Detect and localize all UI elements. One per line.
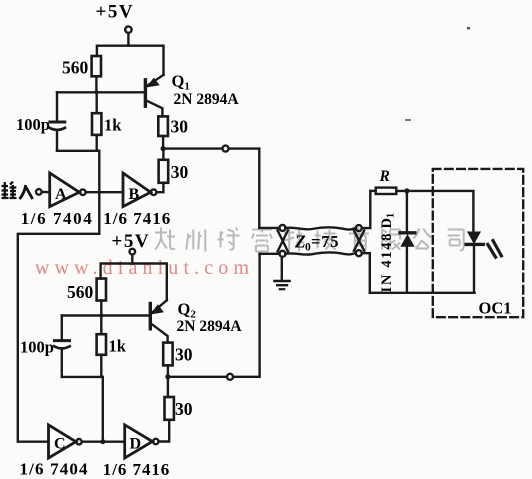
node D1 tap [404,188,409,193]
node input terminal [36,189,42,195]
resistor R [376,188,397,194]
coax cable top line [285,227,356,229]
30/noise specks [467,27,470,29]
wire input to A [42,191,50,194]
wire drop to D input row [102,377,104,442]
wire C out to D in [82,441,125,443]
node C-D row junction [100,439,105,444]
svg-text:1/6 7416: 1/6 7416 [103,460,170,479]
svg-text:C: C [54,436,66,453]
node output junction ch2 [165,374,170,379]
wire 30 to D output [159,420,170,442]
svg-text:30: 30 [171,117,189,137]
diode D1 [406,191,408,231]
coax twist left [278,230,288,251]
resistor 1k ch2 [97,334,106,355]
wire 560 to base row ch2 [100,301,102,316]
svg-text:30: 30 [171,162,189,182]
wire +5V stem ch2 [131,255,133,264]
resistor 560 ch1 [92,56,101,76]
wire to output node ch2 [167,365,169,376]
wire bottom row ch2 [62,376,103,378]
wire top rail ch1 [97,46,164,75]
inverter A ch1 [50,173,80,207]
svg-text:A: A [55,186,67,203]
wire base row ch1 [57,91,145,93]
capacitor 100p ch2 [61,316,63,340]
resistor 1k ch1 [92,113,101,135]
wire feedback drop ch1 to C input [18,151,100,442]
transistor Q2 [149,304,152,329]
svg-text:1k: 1k [104,116,122,135]
wire 30 to B output [156,149,163,193]
wire 560 to base row ch1 [95,76,97,92]
svg-text:2N 2894A: 2N 2894A [177,318,243,335]
optocoupler dashed box OC1 [433,169,523,317]
node output junction ch1 [161,146,166,151]
LED in optocoupler [468,232,480,243]
svg-text:1/6 7404: 1/6 7404 [20,460,89,479]
svg-text:560: 560 [62,58,89,78]
node coax bottom-left circle [280,251,286,257]
resistor 30 upper ch1 [158,116,168,136]
svg-text:30: 30 [175,345,193,365]
wire below junction ch2 [167,377,169,397]
svg-text:560: 560 [67,282,94,302]
inverter C ch2 [49,425,76,458]
coax twist right [354,231,364,251]
resistor 30 upper ch2 [163,343,172,366]
node +5V terminal ch2 [130,249,136,255]
node coax top-right circle [356,225,362,231]
wire R row [370,190,375,192]
wire bottom rail receiver [370,292,475,294]
node coax bottom-right circle [356,250,362,256]
wire coax bottom-left [260,253,280,255]
transistor Q1 [144,80,147,106]
wire A out to B in [86,191,123,193]
wire R to LED [396,191,473,232]
svg-text:1/6 7404: 1/6 7404 [21,209,93,228]
resistor 30 lower ch1 [159,160,169,183]
resistor 30 lower ch2 [165,397,174,420]
watermark gray company text [155,228,464,252]
wire coax top-right to R row [362,191,371,228]
label input (Chinese 输入) [2,182,33,199]
svg-text:30: 30 [175,399,193,419]
wire 1k column ch2 [100,316,102,377]
wire to coax top-left [259,227,279,229]
svg-text:100p: 100p [16,115,50,134]
wire 1k column ch1 [95,92,97,151]
wire +5V stem ch1 [127,33,129,46]
inverter B ch1 [123,173,151,207]
LED light marks [488,244,496,257]
svg-text:+5V: +5V [112,231,151,252]
svg-text:100p: 100p [20,338,54,357]
wire output row ch1 [163,149,259,228]
inverter D ch2 [125,425,153,458]
node open terminal ch1 out [223,146,229,152]
svg-text:R: R [379,168,390,185]
node open terminal ch2 out [227,374,233,380]
coax cable bottom line [285,252,356,254]
svg-text:1/6 7416: 1/6 7416 [103,209,170,228]
svg-text:=75: =75 [311,232,339,251]
ground [281,257,283,281]
wire to output node ch1 [162,136,164,149]
wire output row ch2 [168,254,260,377]
svg-text:+5V: +5V [96,2,135,23]
svg-text:1k: 1k [109,337,127,356]
node +5V terminal ch1 [125,26,131,32]
svg-text:D: D [130,436,142,453]
node coax top-left circle [280,225,286,231]
svg-text:B: B [129,186,140,203]
wire base row ch2 [62,314,150,316]
wire coax bottom-right to rail [362,253,370,293]
capacitor 100p ch1 [56,92,58,121]
svg-text:2N 2894A: 2N 2894A [174,91,240,108]
svg-text:OC1: OC1 [479,299,512,318]
wire top rail ch2 [101,264,167,301]
resistor 560 ch2 [97,279,106,301]
wire bottom row ch1 [57,150,99,152]
